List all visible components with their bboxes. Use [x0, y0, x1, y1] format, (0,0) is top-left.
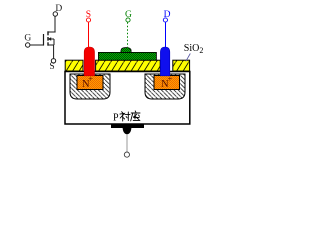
svg-text:P: P	[113, 112, 119, 123]
svg-text:G: G	[24, 33, 31, 43]
svg-text:S: S	[49, 62, 54, 72]
svg-text:D: D	[55, 4, 62, 14]
svg-text:SiO2: SiO2	[184, 43, 204, 55]
